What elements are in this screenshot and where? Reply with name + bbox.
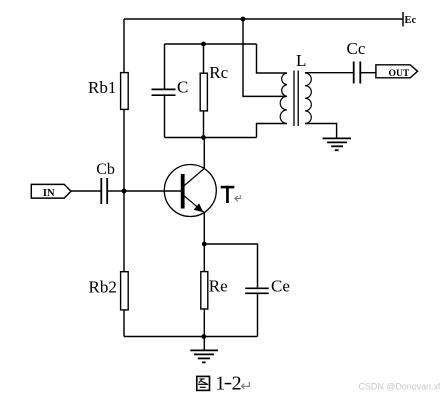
node base junction (122, 189, 127, 194)
capacitor Ce (245, 288, 269, 293)
wire emitter branch to Ce (204, 244, 257, 288)
transistor T body circle (164, 165, 216, 217)
svg-text:IN: IN (43, 188, 55, 199)
wire IN to Cb (71, 190, 101, 192)
tank top wire (165, 43, 257, 45)
inductor L secondary winding (305, 73, 311, 124)
transformer core (293, 71, 295, 127)
resistor Rc top lead (203, 44, 205, 73)
svg-text:2: 2 (232, 373, 242, 395)
return mark after T (235, 195, 240, 201)
node ground junction (201, 334, 206, 339)
resistor Rc (200, 73, 207, 111)
inductor L primary winding (280, 73, 287, 124)
node tank top / Rc (201, 42, 206, 47)
node emitter branch (202, 242, 207, 247)
wire Ce bottom lead (257, 294, 259, 337)
transistor emitter diagonal (184, 196, 204, 212)
bottom ground wire (124, 336, 258, 338)
wire emitter down (203, 212, 205, 336)
svg-text:Ce: Ce (271, 277, 290, 296)
svg-text:Rb1: Rb1 (88, 78, 116, 97)
resistor Rb1 (121, 73, 129, 110)
node tank bottom / collector (201, 135, 206, 140)
caption dash (225, 383, 232, 385)
wire secondary bottom lead (305, 124, 337, 139)
svg-text:1: 1 (215, 373, 225, 395)
svg-text:Rc: Rc (209, 63, 228, 82)
ground (emitter) bars (190, 350, 218, 362)
wire secondary top to Cc (305, 72, 353, 74)
capacitor C top lead (164, 44, 166, 89)
svg-text:Cb: Cb (96, 161, 115, 178)
capacitor Cb (101, 178, 107, 204)
label T (221, 186, 235, 203)
wire Ec drop to transformer tap (243, 19, 287, 96)
svg-text:Rb2: Rb2 (89, 277, 117, 296)
wire left rail below Rb2 (123, 311, 125, 337)
transistor base bar (181, 174, 185, 209)
svg-text:CSDN @Donovan.xf: CSDN @Donovan.xf (359, 382, 441, 392)
resistor Re (201, 272, 208, 309)
caption glyph 图 (197, 376, 210, 390)
wire left bias rail upper (to Rb1) (123, 19, 125, 72)
Ec rail end tick (402, 12, 404, 27)
wire Cb to base node (108, 190, 124, 192)
ground (output side) (323, 138, 351, 150)
capacitor Cc (354, 62, 361, 84)
transistor emitter arrow (194, 203, 204, 212)
transistor collector diagonal (184, 169, 204, 186)
tank bottom wire (165, 137, 257, 139)
wire Cc to OUT (361, 72, 376, 74)
svg-text:Re: Re (209, 277, 228, 296)
svg-text:C: C (177, 78, 188, 97)
ground (emitter) stub (203, 337, 205, 351)
wire primary bottom lead (257, 124, 287, 138)
terminal IN flag (31, 184, 71, 198)
wire top supply rail (124, 18, 403, 20)
svg-text:Ec: Ec (405, 15, 417, 26)
terminal OUT flag (376, 65, 418, 78)
wire collector up to tank (203, 138, 205, 169)
svg-text:Cc: Cc (347, 39, 366, 58)
svg-text:OUT: OUT (389, 68, 410, 79)
capacitor C plates (152, 89, 176, 95)
wire left rail between Rb1 and Rb2 (123, 110, 125, 271)
resistor Rc bottom lead (203, 112, 205, 138)
return mark after caption (242, 382, 250, 389)
resistor Rb2 (121, 272, 129, 310)
capacitor C bottom lead (164, 96, 166, 138)
svg-text:L: L (296, 51, 306, 70)
node supply rail tap (241, 17, 246, 22)
wire primary top lead (257, 44, 287, 73)
wire base lead (124, 190, 181, 192)
